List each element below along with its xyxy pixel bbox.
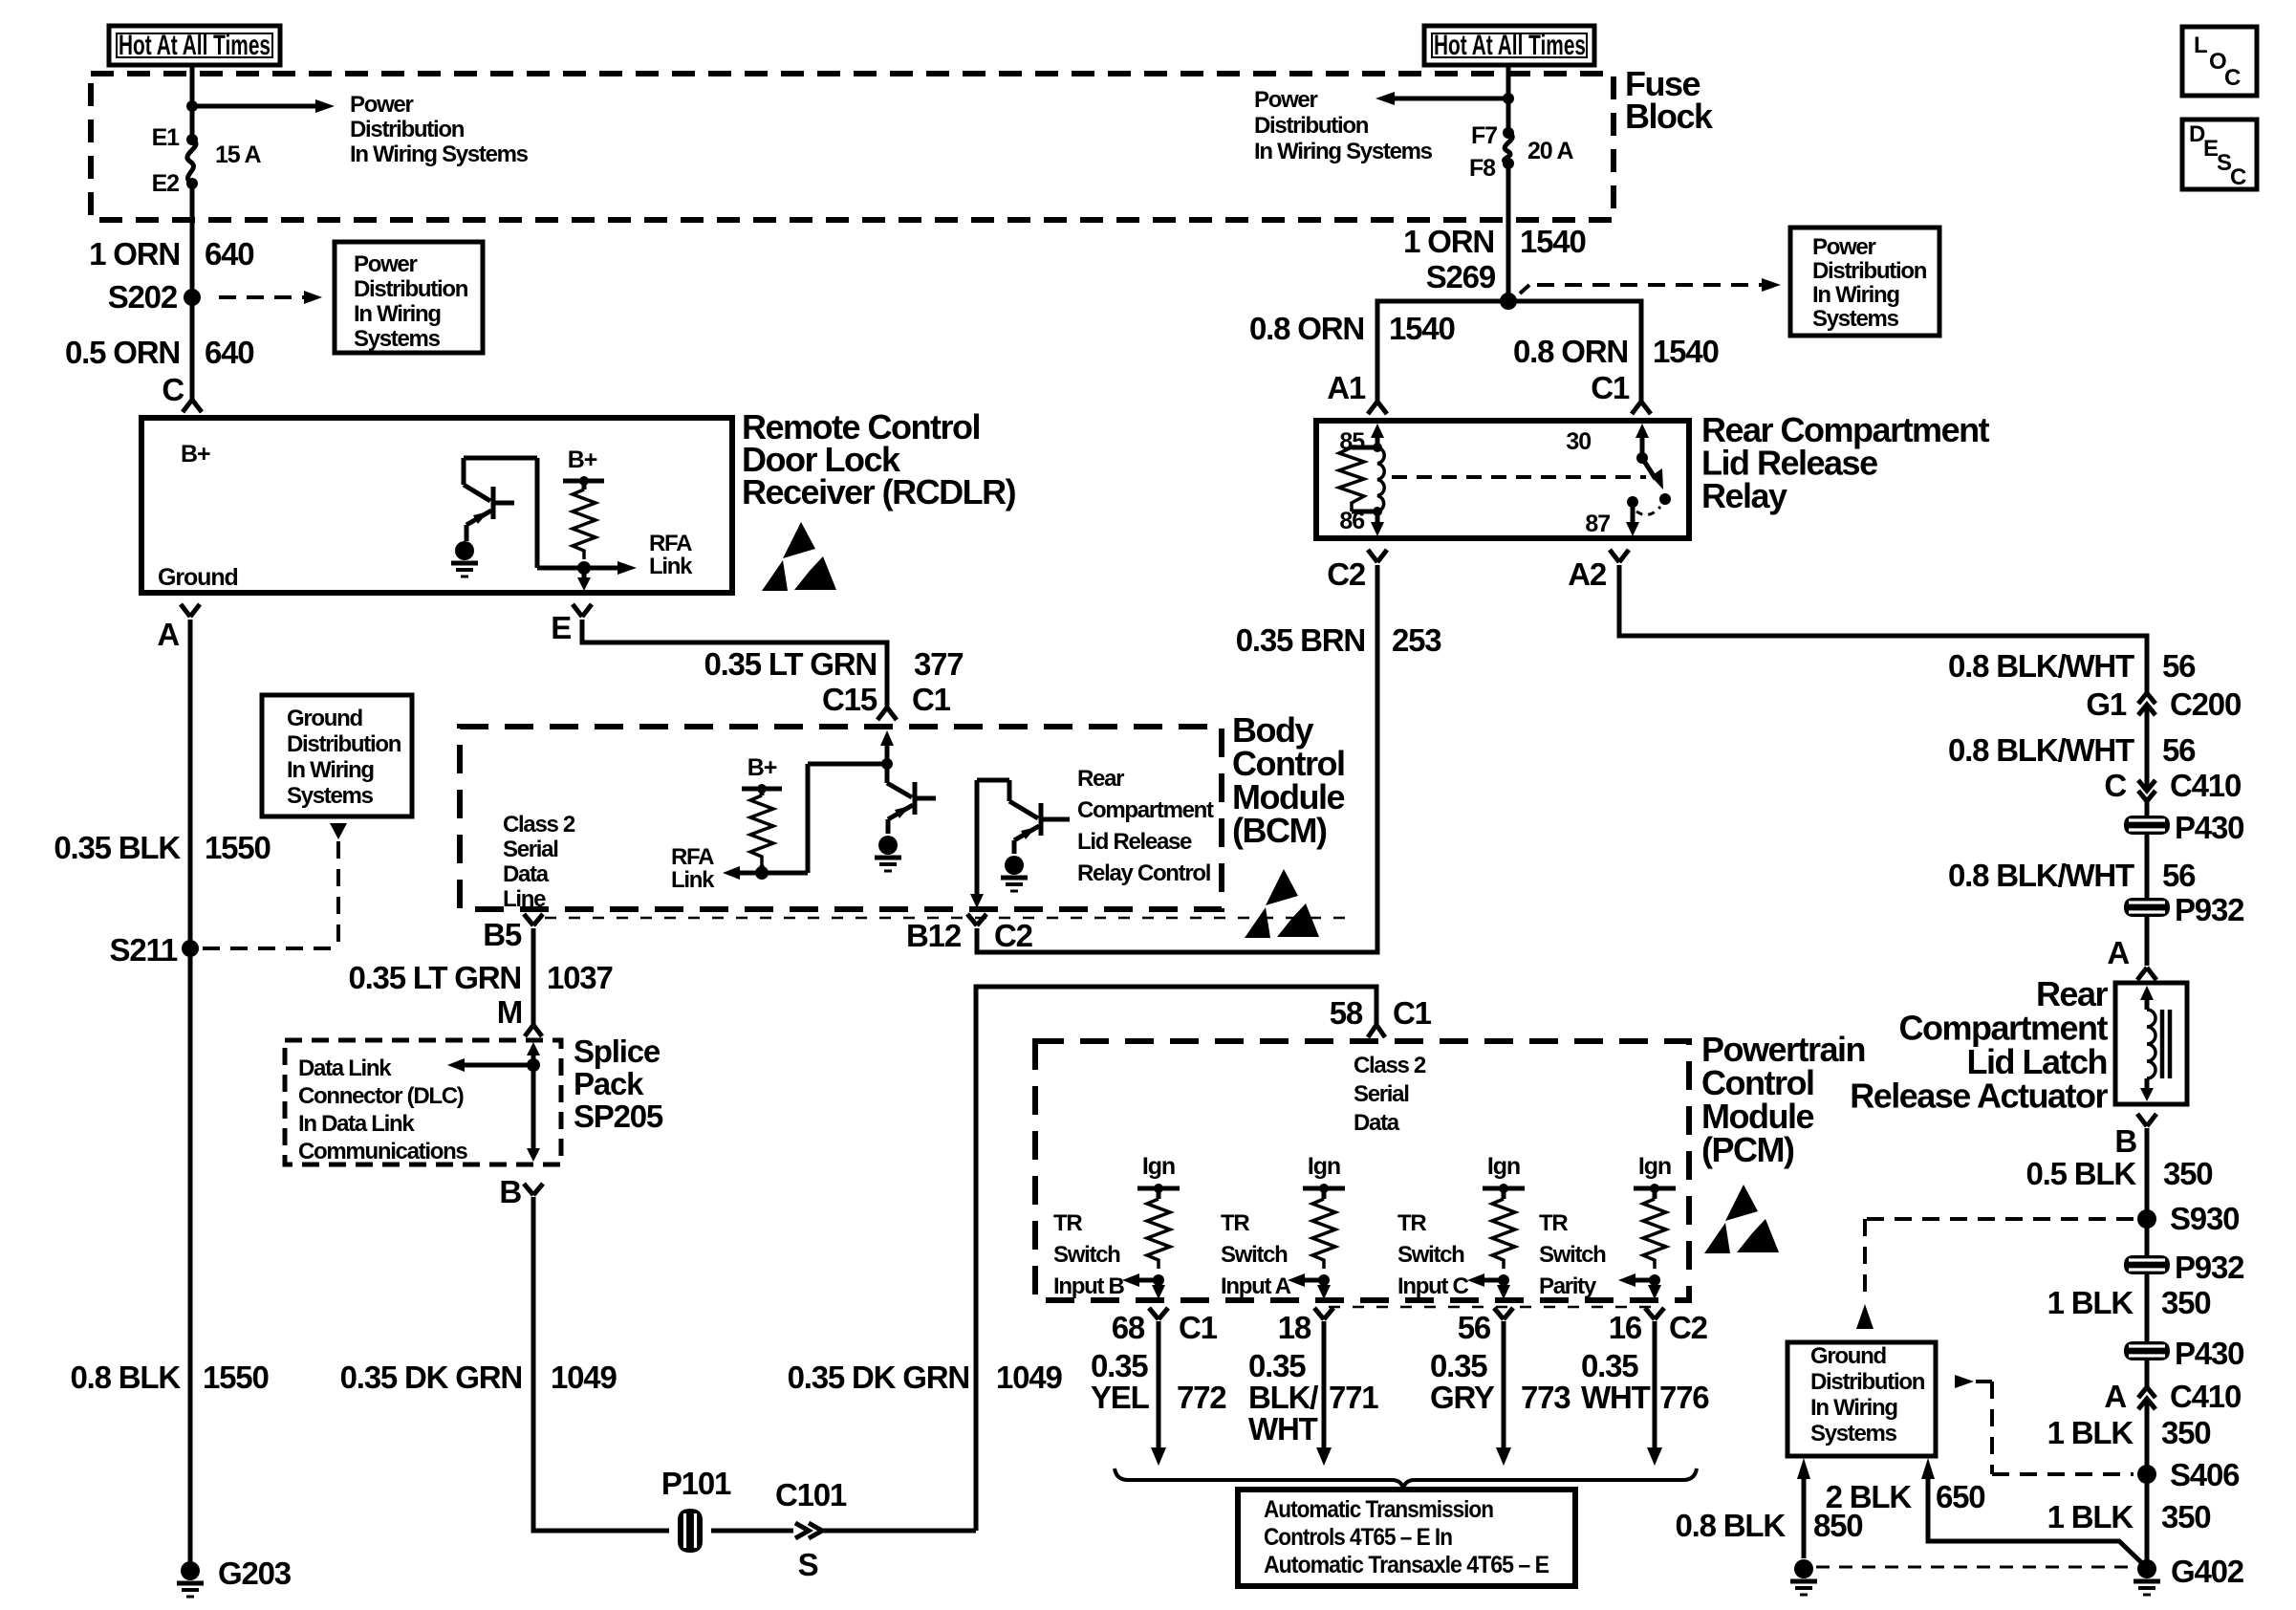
svg-text:0.8 BLK/WHT: 0.8 BLK/WHT [1948, 732, 2134, 768]
reference box: D E S C [2182, 120, 2257, 190]
wire: branch to RFA link resistor inside BCM [740, 764, 887, 873]
relay coil pin 86 arrow [1373, 507, 1382, 516]
wire: RFA Link arrow inside RCDLR [537, 566, 617, 571]
wire: 0.35 BRN 253 from BCM B12 to relay C2 [977, 565, 1377, 952]
wire: 1 ORN 640 / 0.5 ORN 640 down to RCDLR pin C [190, 184, 195, 400]
svg-text:G1: G1 [2086, 686, 2126, 722]
svg-text:C200: C200 [2170, 686, 2241, 722]
ESD symbol at PCM [1704, 1185, 1779, 1253]
fuse element 20 A [1504, 133, 1512, 163]
svg-text:86: 86 [1339, 508, 1364, 534]
relay switch blade [1642, 458, 1656, 479]
label box: Ground Distribution In Wiring Systems (right) [1787, 1342, 1936, 1456]
wire: split from S269 to relay pins A1 and C1 [1377, 301, 1641, 402]
label box: Power Distribution In Wiring Systems (upper left) [335, 242, 483, 353]
svg-text:350: 350 [2163, 1156, 2212, 1191]
ground symbol under Q1 [875, 836, 901, 871]
svg-text:0.8 BLK: 0.8 BLK [71, 1360, 182, 1395]
svg-text:0.8 ORN: 0.8 ORN [1249, 311, 1364, 346]
pass-through grommet P101 [661, 1466, 731, 1553]
svg-text:0.35: 0.35 [1248, 1348, 1306, 1383]
dashed reference arrow from S202 [219, 295, 304, 299]
wire: 0.35 BLK/WHT 771 [1322, 1321, 1327, 1447]
wire: 0.35 YEL 772 [1157, 1321, 1161, 1447]
svg-text:1540: 1540 [1653, 334, 1719, 369]
wire: 0.35 DK GRN 1049 from splice pack B to PCM 58 [533, 987, 1376, 1531]
svg-text:Ground: Ground [158, 564, 238, 591]
relay internal dashed actuation line [1392, 475, 1646, 479]
svg-text:253: 253 [1392, 622, 1441, 658]
svg-text:16: 16 [1609, 1310, 1642, 1345]
svg-text:0.35: 0.35 [1581, 1348, 1638, 1383]
wire: Q2 base down to pin B12 with arrow [975, 780, 980, 894]
svg-text:68: 68 [1112, 1310, 1145, 1345]
wire: ground path from actuator B to G402 [2145, 1128, 2150, 1560]
svg-text:A: A [157, 617, 179, 652]
svg-text:0.35: 0.35 [1091, 1348, 1148, 1383]
svg-text:WHT: WHT [1581, 1380, 1651, 1415]
wire: 0.8 BLK 850 to left ground [1797, 1458, 1810, 1479]
svg-text:C15: C15 [822, 682, 877, 717]
svg-text:A2: A2 [1568, 556, 1607, 592]
thin dashed connector boundary under PCM [1329, 1306, 1659, 1309]
svg-text:0.8 BLK/WHT: 0.8 BLK/WHT [1948, 648, 2134, 684]
svg-text:Hot At All Times: Hot At All Times [1434, 30, 1586, 61]
reference box: L O C [2182, 27, 2257, 96]
TR switch pull-up column 1 (pin 68) [1053, 1153, 1180, 1299]
dashed link between grounds [1816, 1566, 2132, 1569]
svg-text:1540: 1540 [1389, 311, 1455, 346]
svg-text:0.8 BLK/WHT: 0.8 BLK/WHT [1948, 858, 2134, 893]
actuator solenoid [2140, 986, 2170, 1101]
svg-text:350: 350 [2161, 1285, 2210, 1320]
TR switch pull-up column 3 (pin 56) [1397, 1153, 1525, 1299]
TR switch pull-up column 2 (pin 18) [1221, 1153, 1345, 1299]
wire: 1 ORN 1540 down to splice S269 [1506, 163, 1511, 301]
svg-text:0.35 LT GRN: 0.35 LT GRN [704, 646, 877, 682]
B+ rail bar inside RCDLR [563, 479, 604, 484]
svg-text:P430: P430 [2175, 1336, 2243, 1371]
svg-text:Ign: Ign [1638, 1153, 1671, 1180]
module box: Body Control Module (BCM) dashed [460, 727, 1222, 909]
dashed reference from Ground Distribution box to S406 [1955, 1375, 1974, 1388]
ESD symbol at RCDLR [762, 522, 836, 591]
svg-text:S269: S269 [1426, 259, 1496, 294]
svg-text:1 BLK: 1 BLK [2047, 1285, 2134, 1320]
svg-text:650: 650 [1936, 1479, 1984, 1514]
ground (left of G402) [1790, 1559, 1817, 1595]
svg-text:0.8 ORN: 0.8 ORN [1513, 334, 1628, 369]
svg-text:0.35 DK GRN: 0.35 DK GRN [340, 1360, 522, 1395]
module box: Remote Control Door Lock Receiver (RCDLR) [141, 418, 732, 593]
svg-text:C1: C1 [1591, 370, 1630, 405]
svg-text:A: A [2104, 1379, 2126, 1414]
svg-text:30: 30 [1566, 428, 1591, 455]
svg-text:E1: E1 [152, 124, 181, 151]
svg-text:C: C [2104, 768, 2126, 803]
label box: Hot At All Times (left) [109, 26, 280, 65]
svg-text:0.35: 0.35 [1430, 1348, 1487, 1383]
svg-text:2 BLK: 2 BLK [1826, 1479, 1913, 1514]
svg-text:P101: P101 [661, 1466, 731, 1501]
thin dashed connector boundary under BCM [545, 917, 1350, 920]
svg-text:Ign: Ign [1487, 1153, 1520, 1180]
node: junction on feed wire [186, 100, 198, 112]
transistor Q1 inside BCM [887, 764, 936, 834]
svg-text:1 BLK: 1 BLK [2047, 1499, 2134, 1534]
svg-text:B5: B5 [483, 917, 522, 952]
svg-text:F7: F7 [1471, 122, 1497, 149]
svg-text:F8: F8 [1469, 155, 1496, 182]
svg-text:C2: C2 [1669, 1310, 1708, 1345]
svg-text:1550: 1550 [205, 830, 271, 865]
svg-text:0.35 BRN: 0.35 BRN [1236, 622, 1365, 658]
svg-text:B+: B+ [181, 441, 210, 468]
TR switch pull-up column 4 (pin 16) [1539, 1153, 1676, 1299]
svg-text:C: C [2224, 65, 2241, 91]
svg-text:E2: E2 [152, 170, 180, 197]
node: resistor junction on RFA line [755, 866, 769, 880]
svg-text:Ign: Ign [1308, 1153, 1340, 1180]
inline connector C101 S [775, 1477, 847, 1582]
svg-text:C410: C410 [2170, 1379, 2241, 1414]
svg-text:Link: Link [671, 867, 715, 893]
svg-text:0.35 DK GRN: 0.35 DK GRN [788, 1360, 969, 1395]
svg-text:0.8 BLK: 0.8 BLK [1676, 1508, 1787, 1543]
svg-text:640: 640 [205, 236, 253, 272]
svg-text:773: 773 [1521, 1380, 1570, 1415]
svg-text:A: A [2107, 935, 2129, 970]
svg-text:1037: 1037 [547, 960, 613, 995]
svg-text:C2: C2 [1327, 556, 1366, 592]
relay switch dashed throw arc [1636, 507, 1660, 515]
component box: Rear Compartment Lid Release Relay [1316, 421, 1689, 538]
ground G402 [2134, 1559, 2160, 1595]
svg-text:Hot At All Times: Hot At All Times [119, 30, 271, 61]
svg-text:772: 772 [1177, 1380, 1226, 1415]
wire: 2 BLK 650 to G402 [1921, 1458, 1935, 1479]
svg-text:Link: Link [649, 554, 693, 579]
pass-through grommet P932 (lower) [2124, 1255, 2170, 1274]
svg-text:56: 56 [2162, 858, 2196, 893]
pass-through grommet P430 [2124, 816, 2170, 835]
relay switch pin 87 [1627, 496, 1638, 508]
svg-text:C2: C2 [994, 918, 1033, 953]
splice S406 [2137, 1465, 2156, 1484]
transistor Q inside RCDLR [464, 458, 537, 568]
splice pack dashed box [285, 1040, 561, 1164]
svg-text:G203: G203 [218, 1556, 292, 1591]
svg-text:640: 640 [205, 335, 253, 370]
wire: 0.35 WHT 776 [1653, 1321, 1657, 1447]
svg-text:RFA: RFA [649, 531, 692, 556]
svg-text:56: 56 [2162, 732, 2196, 768]
svg-text:20 A: 20 A [1527, 138, 1574, 164]
svg-text:P932: P932 [2175, 1250, 2244, 1285]
svg-text:58: 58 [1330, 995, 1363, 1031]
label box: Hot At All Times (right) [1424, 26, 1594, 65]
resistor inside BCM [760, 789, 765, 795]
svg-text:87: 87 [1585, 511, 1610, 537]
dashed reference arrow from Ground Distribution box to S211 [330, 823, 347, 839]
node: resistor to RFA link [577, 561, 591, 575]
svg-text:GRY: GRY [1430, 1380, 1495, 1415]
wire: internal arrow up to pin C15 [885, 744, 890, 764]
svg-text:15 A: 15 A [215, 141, 262, 168]
svg-text:G402: G402 [2171, 1554, 2244, 1589]
svg-text:YEL: YEL [1091, 1380, 1150, 1415]
fuse block dashed outline [91, 74, 1614, 220]
wire: 0.8 BLK/WHT 56 from relay A2 to right chain [1619, 565, 2147, 966]
svg-text:350: 350 [2161, 1415, 2210, 1450]
svg-text:M: M [497, 994, 522, 1030]
svg-text:WHT: WHT [1248, 1411, 1318, 1447]
svg-text:P430: P430 [2175, 810, 2243, 845]
component box: Rear Compartment Lid Latch Release Actuator [2115, 983, 2187, 1104]
wire: arrow to Power Distribution (left fuse) [192, 104, 315, 109]
svg-text:0.5 BLK: 0.5 BLK [2026, 1156, 2137, 1191]
svg-text:0.5 ORN: 0.5 ORN [65, 335, 180, 370]
svg-text:776: 776 [1659, 1380, 1709, 1415]
dashed reference arrow from S269 [1520, 285, 1762, 294]
svg-text:1 BLK: 1 BLK [2047, 1415, 2134, 1450]
svg-text:C1: C1 [1393, 995, 1432, 1031]
svg-text:E: E [551, 610, 571, 645]
svg-text:B+: B+ [747, 754, 777, 781]
svg-text:S406: S406 [2170, 1457, 2240, 1492]
svg-text:56: 56 [2162, 648, 2196, 684]
svg-text:1049: 1049 [551, 1360, 617, 1395]
svg-text:Ign: Ign [1142, 1153, 1175, 1180]
svg-text:1049: 1049 [996, 1360, 1062, 1395]
wire: arrow to Power Distribution (right fuse, pointing left) [1395, 97, 1508, 101]
svg-text:S211: S211 [110, 932, 178, 968]
svg-text:1 ORN: 1 ORN [1403, 224, 1494, 259]
svg-text:B12: B12 [906, 918, 962, 953]
label box: Power Distribution In Wiring Systems (right) [1790, 228, 1939, 336]
wire: 0.35 LT GRN 1037 from BCM B5 to splice pack M [531, 928, 536, 1025]
svg-text:771: 771 [1329, 1380, 1378, 1415]
fuse element 15 A [187, 140, 196, 184]
node: junction on right feed wire [1503, 93, 1514, 104]
svg-text:18: 18 [1278, 1310, 1311, 1345]
svg-text:C1: C1 [912, 682, 951, 717]
svg-text:1550: 1550 [203, 1360, 269, 1395]
dashed reference from S930 to Ground Distribution box [1865, 1219, 2134, 1298]
svg-text:B: B [499, 1174, 521, 1209]
wire: 0.35 GRY 773 [1502, 1321, 1506, 1447]
pass-through grommet P932 [2124, 898, 2170, 917]
svg-text:C: C [2230, 164, 2246, 190]
node: base junction inside BCM [881, 758, 893, 770]
svg-text:RFA: RFA [671, 844, 714, 870]
svg-text:0.35 BLK: 0.35 BLK [54, 830, 181, 865]
ground symbol under Q2 [1001, 856, 1028, 891]
ground G203 [177, 1561, 204, 1597]
svg-text:C1: C1 [1179, 1310, 1218, 1345]
wire: output to pin E with arrow [582, 568, 587, 577]
svg-text:A1: A1 [1327, 370, 1366, 405]
brace grouping PCM outputs [1115, 1469, 1697, 1489]
wire: battery feed into fuse F7 [1506, 65, 1511, 133]
svg-text:P932: P932 [2175, 892, 2244, 927]
wire: battery feed into fuse E1 [190, 65, 195, 140]
svg-text:377: 377 [914, 646, 963, 682]
svg-text:C101: C101 [775, 1477, 847, 1512]
wire: ground wire from RCDLR pin A to G203 [188, 620, 193, 1562]
svg-text:C: C [162, 372, 184, 407]
splice S930 [2137, 1209, 2156, 1229]
label box: Automatic Transmission Controls [1238, 1490, 1575, 1586]
svg-text:B+: B+ [568, 446, 597, 473]
svg-text:0.35 LT GRN: 0.35 LT GRN [348, 960, 521, 995]
svg-text:56: 56 [1458, 1310, 1491, 1345]
svg-text:S202: S202 [108, 279, 178, 315]
svg-text:B: B [2114, 1123, 2136, 1159]
svg-text:350: 350 [2161, 1499, 2210, 1534]
svg-text:C410: C410 [2170, 768, 2241, 803]
svg-text:BLK/: BLK/ [1248, 1380, 1318, 1415]
ESD symbol at BCM [1245, 869, 1319, 938]
svg-text:1540: 1540 [1520, 224, 1586, 259]
svg-text:S930: S930 [2170, 1201, 2239, 1236]
label box: Ground Distribution In Wiring Systems (left) [262, 695, 412, 816]
relay coil (resistor + inductor in parallel) [1339, 447, 1384, 511]
svg-text:1 ORN: 1 ORN [89, 236, 180, 272]
svg-text:L: L [2194, 33, 2207, 58]
module box: Powertrain Control Module (PCM) dashed [1035, 1041, 1689, 1300]
splice pack internal bus with arrows [447, 1042, 540, 1162]
wire: 0.35 LT GRN 377 from RCDLR E to BCM C15 [582, 620, 887, 707]
resistor inside RCDLR [582, 481, 587, 490]
svg-text:S: S [798, 1547, 818, 1582]
transistor Q2 inside BCM [977, 780, 1070, 854]
ground symbol inside RCDLR [451, 541, 478, 577]
pass-through grommet P430 (lower) [2124, 1341, 2170, 1360]
